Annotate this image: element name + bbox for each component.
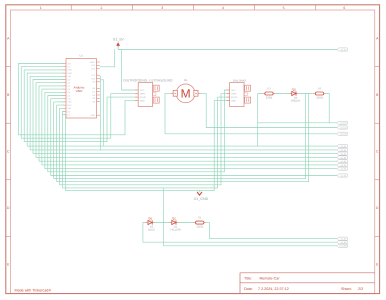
wire GND stub bbox=[199, 191, 201, 192]
svg-text:U2_D12: U2_D12 bbox=[340, 126, 346, 129]
wire cross link bbox=[258, 122, 330, 124]
wire U1 pin 2 bus bbox=[21, 67, 111, 139]
frame row letters A-E bbox=[7, 36, 379, 266]
wire R5 right to label bbox=[326, 94, 337, 123]
svg-text:7.2.2024, 22:37:12: 7.2.2024, 22:37:12 bbox=[258, 287, 289, 291]
resistor R4 bbox=[193, 217, 206, 229]
svg-text:VCC: VCC bbox=[231, 89, 236, 92]
wire U1 pin 10 bus bbox=[45, 92, 337, 168]
ground flag U1_GND bbox=[194, 192, 209, 201]
wire DIST1 GND bbox=[125, 100, 135, 134]
wire U1 pin 15 bus bbox=[60, 108, 221, 185]
wire U1 pin 3 bus bbox=[24, 70, 107, 142]
wire DIST2 GND bbox=[214, 100, 226, 190]
net label bottom 2 bbox=[337, 241, 347, 245]
net label M1 right bbox=[337, 126, 347, 129]
wire U1 pin 9 bus bbox=[42, 89, 337, 165]
wire R4 to corner bbox=[206, 223, 337, 239]
svg-text:GND: GND bbox=[231, 99, 236, 102]
net label M1 left bbox=[337, 132, 347, 136]
svg-text:6: 6 bbox=[343, 6, 345, 10]
svg-text:220Ω: 220Ω bbox=[266, 97, 273, 100]
svg-text:BLUE: BLUE bbox=[148, 228, 155, 231]
wire tap drop a bbox=[305, 94, 307, 179]
ultrasonic distance sensor DIST2 bbox=[226, 83, 250, 107]
frame column numbers 1-6 bbox=[40, 6, 346, 10]
svg-text:TRIG: TRIG bbox=[231, 93, 237, 96]
wire U1 pin 6 bus bbox=[33, 80, 337, 154]
wire U1 right pin drop 2 bbox=[100, 80, 104, 146]
svg-text:Remote-Car: Remote-Car bbox=[260, 277, 281, 281]
svg-text:1: 1 bbox=[40, 6, 42, 10]
svg-text:U1_GND: U1_GND bbox=[194, 197, 209, 201]
LED D4 bbox=[289, 88, 300, 103]
wire R3 left bbox=[258, 93, 263, 95]
svg-text:U2_D6: U2_D6 bbox=[341, 160, 346, 163]
svg-text:A: A bbox=[7, 36, 10, 40]
svg-text:D: D bbox=[7, 206, 10, 210]
svg-text:B: B bbox=[7, 93, 10, 97]
svg-text:UNO: UNO bbox=[76, 89, 83, 93]
svg-text:U2_D13: U2_D13 bbox=[340, 133, 346, 136]
svg-text:D: D bbox=[376, 206, 379, 210]
svg-text:R3: R3 bbox=[267, 88, 271, 91]
svg-text:ECHO: ECHO bbox=[140, 96, 147, 99]
wire DIST1 TRIG bbox=[111, 94, 135, 139]
net label U2_D2 bbox=[337, 145, 347, 149]
wire D3 to D2 bbox=[155, 222, 170, 224]
svg-text:U1_GND2: U1_GND2 bbox=[340, 245, 348, 248]
svg-text:VCC: VCC bbox=[140, 89, 145, 92]
svg-text:Sheet:: Sheet: bbox=[341, 287, 352, 291]
svg-text:U2_D4: U2_D4 bbox=[341, 153, 346, 156]
wire tap drop b bbox=[308, 94, 310, 182]
wire DIST2 TRIG bbox=[221, 94, 226, 185]
svg-text:U1_5V: U1_5V bbox=[113, 38, 125, 42]
svg-text:U2_D7: U2_D7 bbox=[341, 164, 346, 167]
svg-text:E: E bbox=[376, 263, 379, 267]
wire 5V to U1 pin bbox=[100, 50, 115, 67]
svg-text:GND: GND bbox=[68, 69, 73, 72]
net label U2_D4 bbox=[337, 152, 347, 156]
resistor R5 bbox=[313, 88, 326, 100]
wire DIST2 VCC bbox=[224, 90, 226, 172]
wire D4 to R5 bbox=[299, 93, 313, 95]
svg-text:RES: RES bbox=[68, 104, 73, 107]
svg-text:GREEN: GREEN bbox=[291, 99, 300, 102]
svg-text:U2_D8: U2_D8 bbox=[341, 168, 346, 171]
ultrasonic distance sensor DIST1 bbox=[135, 83, 159, 107]
svg-text:AREF: AREF bbox=[90, 61, 96, 64]
svg-text:GND: GND bbox=[140, 99, 145, 102]
frame row ticks bbox=[6, 67, 380, 237]
svg-text:SDA: SDA bbox=[68, 101, 73, 104]
wire R3 to D4 bbox=[275, 93, 289, 95]
svg-text:U2_D3: U2_D3 bbox=[341, 149, 346, 152]
svg-text:U2_D9: U2_D9 bbox=[341, 174, 346, 177]
svg-text:U1: U1 bbox=[80, 55, 84, 58]
wire bus drop to bottom bbox=[164, 188, 338, 246]
wire 5V to DIST1 VCC bbox=[122, 50, 135, 91]
net label U2_D8 bbox=[337, 167, 347, 171]
svg-text:DISTRORDING_ULTRASOUND: DISTRORDING_ULTRASOUND bbox=[123, 79, 173, 83]
motor M1 bbox=[171, 79, 201, 103]
svg-text:U2_D2: U2_D2 bbox=[341, 145, 346, 148]
wire U1 pin 17 bus bbox=[64, 115, 215, 191]
frame column ticks bbox=[71, 5, 316, 10]
svg-text:3: 3 bbox=[161, 6, 163, 10]
net label U2_D5 bbox=[337, 156, 347, 160]
svg-text:U2_5V: U2_5V bbox=[341, 48, 347, 51]
net label U2_D6 bbox=[337, 160, 347, 164]
svg-text:4: 4 bbox=[222, 6, 224, 10]
svg-text:R5: R5 bbox=[318, 88, 322, 91]
svg-text:YELLOW: YELLOW bbox=[170, 228, 181, 231]
svg-text:Made with Tinkercad®: Made with Tinkercad® bbox=[15, 289, 52, 293]
wire U1 pin 14 bus bbox=[57, 105, 309, 182]
wire U1 pin 4 bus bbox=[27, 73, 337, 146]
wire M1 left terminal bbox=[165, 93, 337, 134]
svg-text:ECHO: ECHO bbox=[231, 96, 238, 99]
wire D3 left loop bbox=[143, 223, 337, 243]
svg-text:M: M bbox=[181, 87, 191, 101]
wire U1 pin 1 bus bbox=[18, 64, 125, 135]
net label U2_D3 bbox=[337, 148, 347, 152]
wire U1 pin 7 bus bbox=[36, 83, 337, 158]
wire DIST1 ECHO bbox=[107, 97, 135, 142]
power flag U1_5V bbox=[113, 38, 125, 47]
svg-text:DALJINA2: DALJINA2 bbox=[233, 78, 247, 82]
svg-text:Date:: Date: bbox=[244, 287, 253, 291]
LED D2 bbox=[169, 217, 181, 232]
wire U1 pin 11 bus bbox=[48, 96, 225, 172]
wire D2 to R4 bbox=[179, 222, 194, 224]
wire U1 pin 16 bus bbox=[63, 112, 218, 188]
svg-text:GND: GND bbox=[68, 72, 73, 75]
resistor R3 bbox=[263, 88, 276, 100]
svg-text:B: B bbox=[376, 93, 379, 97]
svg-text:GND: GND bbox=[91, 114, 96, 117]
net label R5 net bbox=[337, 121, 347, 124]
svg-text:220Ω: 220Ω bbox=[316, 97, 323, 100]
wire 5V rail bbox=[118, 49, 337, 51]
svg-text:C: C bbox=[7, 150, 10, 154]
net label 5V rail bbox=[337, 48, 347, 52]
svg-text:220Ω: 220Ω bbox=[196, 226, 203, 229]
wire U1 right pin drop 1 bbox=[99, 76, 101, 150]
svg-text:C: C bbox=[376, 150, 379, 154]
net label bottom 1 bbox=[337, 237, 347, 241]
svg-text:TRIG: TRIG bbox=[140, 93, 146, 96]
svg-text:U2_D10: U2_D10 bbox=[340, 122, 346, 125]
svg-text:U1_D4: U1_D4 bbox=[341, 238, 346, 241]
net label U2_D7 bbox=[337, 163, 347, 167]
svg-text:VIN: VIN bbox=[68, 75, 72, 78]
net label U2_D9 bbox=[337, 174, 347, 178]
net label bottom 3 bbox=[337, 244, 347, 248]
svg-text:R4: R4 bbox=[198, 217, 202, 220]
svg-text:Title:: Title: bbox=[244, 277, 252, 281]
svg-text:E: E bbox=[7, 263, 10, 267]
svg-text:U2_D5: U2_D5 bbox=[341, 156, 346, 159]
wire M1 right terminal bbox=[201, 93, 337, 127]
wire U1 pin 12 bus bbox=[51, 99, 337, 176]
wire U1 pin 5 bus bbox=[30, 76, 337, 150]
svg-text:2: 2 bbox=[101, 6, 103, 10]
Arduino UNO U1 bbox=[63, 55, 100, 118]
wire DIST2 ECHO bbox=[218, 97, 227, 188]
LED D3 bbox=[146, 217, 156, 232]
wire feed R3 bbox=[257, 94, 259, 147]
svg-text:IOR: IOR bbox=[68, 107, 72, 110]
wire U1 pin 8 bus bbox=[39, 86, 337, 161]
wire U1_5V to 5V rail bbox=[117, 47, 119, 50]
svg-text:U1_D3: U1_D3 bbox=[341, 241, 346, 244]
svg-text:A: A bbox=[376, 36, 379, 40]
svg-text:2/2: 2/2 bbox=[358, 287, 363, 291]
title block bbox=[240, 273, 375, 294]
svg-text:5: 5 bbox=[283, 6, 285, 10]
svg-text:M1: M1 bbox=[184, 79, 188, 82]
wire U1 pin 13 bus bbox=[54, 102, 306, 179]
